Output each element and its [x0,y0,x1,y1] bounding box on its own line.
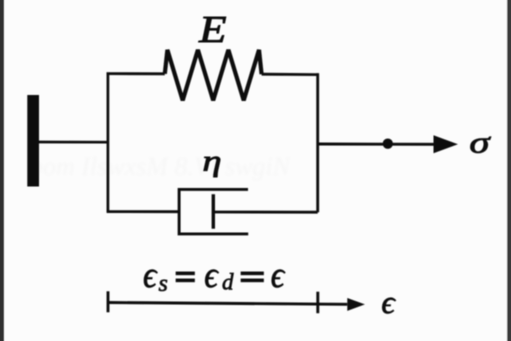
dashpot piston rod [213,211,317,214]
strain arrow head [347,298,365,311]
spring E [165,50,262,101]
svg-text:d: d [222,270,234,295]
node (junction dot) [383,139,393,149]
svg-text:s: s [159,271,168,297]
svg-text:ϵ: ϵ [204,254,219,295]
arrow head sigma [434,135,458,153]
strain tick right [316,292,319,314]
strain tick left [107,291,110,312]
faint bleed-through text [30,152,292,181]
dashpot wire left [107,210,179,213]
top branch wire left [107,72,165,75]
top branch wire right [262,73,319,76]
output wire [318,143,435,146]
left vertical wire [107,72,110,211]
svg-text:ϵ: ϵ [381,285,396,321]
equals 1 [176,272,195,275]
svg-text:σ: σ [469,125,492,159]
svg-text:E: E [198,8,226,50]
right vertical wire [316,73,319,212]
wire wall to left junction [39,141,108,144]
svg-text:bom IlswxsM 8.VI swgiN: bom IlswxsM 8.VI swgiN [30,152,292,181]
right scan edge [508,0,511,341]
svg-text:ϵ: ϵ [271,254,286,295]
wall (fixed support) [27,95,39,187]
dashpot piston [212,194,215,229]
strain axis line [108,303,347,305]
label epsilon_s = epsilon_d = epsilon [143,254,286,297]
svg-text:η: η [202,144,221,177]
equals 2 [241,272,264,275]
dashpot cylinder [179,189,248,234]
svg-text:ϵ: ϵ [143,254,158,295]
left scan edge [0,0,3,341]
